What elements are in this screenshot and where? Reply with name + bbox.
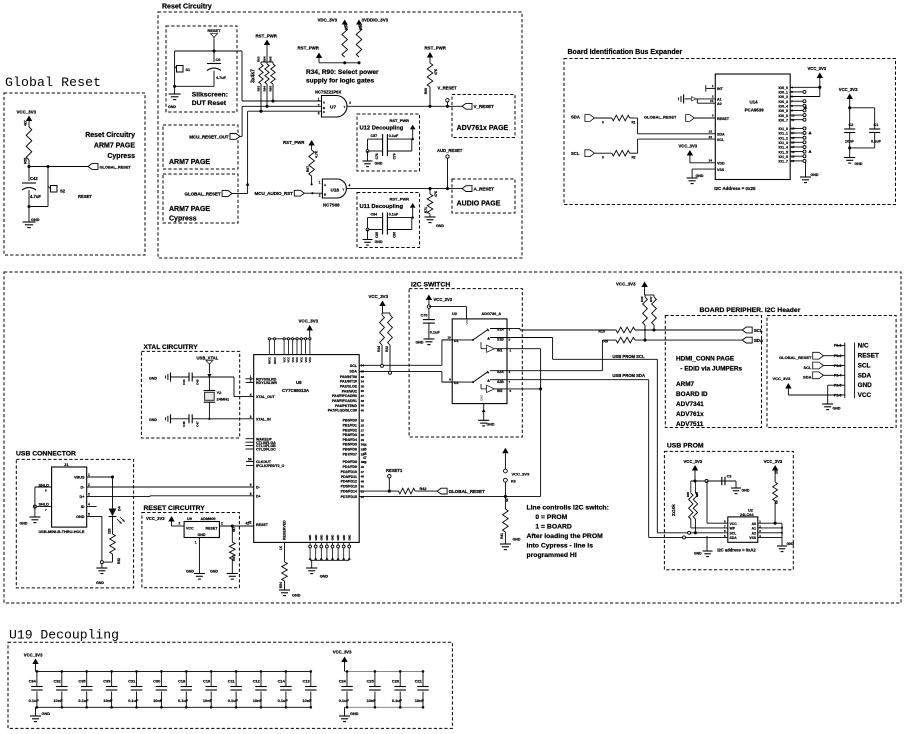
resistor R63 10k — [773, 469, 779, 504]
capacitor C6 4.7uF — [207, 51, 227, 86]
svg-text:D2: D2 — [454, 381, 459, 385]
svg-text:GND: GND — [480, 395, 484, 401]
node junction — [100, 561, 103, 564]
label USB-MINI-B-THRU-HOLE — [39, 529, 85, 534]
svg-text:5: 5 — [88, 513, 90, 517]
pin GND of U3 — [480, 395, 486, 421]
svg-text:SCL: SCL — [858, 363, 871, 370]
svg-text:PB1/FD1: PB1/FD1 — [343, 424, 357, 428]
svg-text:PB0/FD0: PB0/FD0 — [343, 419, 357, 423]
section title: RESET CIRCUITRY — [144, 505, 206, 512]
IC U14 right pins IO1_0..IO1_7 — [778, 127, 806, 164]
svg-text:4: 4 — [349, 101, 351, 105]
section title: U19 Decoupling — [9, 628, 119, 643]
svg-text:S1B: S1B — [497, 338, 504, 342]
svg-text:C24: C24 — [339, 679, 347, 684]
svg-text:DUT Reset: DUT Reset — [192, 100, 227, 107]
power flag VCC_3V3 — [299, 319, 319, 339]
svg-text:AUDIO PAGE: AUDIO PAGE — [457, 201, 501, 208]
svg-text:24MHz: 24MHz — [217, 396, 230, 401]
svg-text:0.1uF: 0.1uF — [430, 331, 441, 335]
wire — [192, 376, 199, 378]
wire IC top power bus — [268, 338, 313, 364]
ground — [478, 420, 495, 426]
node junction — [46, 165, 49, 168]
label ARM7 PAGE Cypress — [169, 206, 210, 222]
svg-text:ARM7 PAGE: ARM7 PAGE — [94, 143, 135, 150]
svg-text:VCC_3V3: VCC_3V3 — [369, 294, 389, 299]
svg-text:3: 3 — [88, 493, 90, 497]
wire — [29, 166, 88, 168]
svg-text:28: 28 — [361, 433, 365, 437]
wire USB PROM SCL — [657, 531, 728, 534]
resistor R41 1K — [500, 496, 509, 538]
ground — [731, 488, 750, 494]
wire — [47, 167, 49, 187]
svg-text:4.7uF: 4.7uF — [30, 194, 41, 199]
svg-text:2: 2 — [221, 522, 223, 526]
svg-text:50: 50 — [361, 485, 365, 489]
node junction — [848, 106, 851, 109]
resistor R64 — [263, 56, 270, 84]
svg-text:IN1: IN1 — [497, 349, 503, 353]
svg-text:USB-MINI-B-THRU-HOLE: USB-MINI-B-THRU-HOLE — [39, 529, 85, 534]
resistor R71 47K — [424, 189, 438, 214]
svg-text:IO0_4: IO0_4 — [778, 105, 788, 109]
resistor R63 — [257, 56, 264, 84]
svg-text:PB5/FD5: PB5/FD5 — [343, 443, 357, 447]
power flag RST_PWR — [390, 118, 416, 139]
wire — [199, 418, 253, 420]
svg-text:ARM7 PAGE: ARM7 PAGE — [169, 206, 210, 213]
ground — [210, 570, 238, 580]
ground — [687, 174, 704, 184]
capacitor C24 0.1uF — [339, 670, 353, 708]
svg-text:C13: C13 — [303, 679, 311, 684]
wire — [367, 139, 369, 151]
svg-text:VCC: VCC — [300, 357, 304, 363]
wire — [102, 554, 113, 562]
svg-text:GND: GND — [742, 489, 750, 493]
svg-text:C12: C12 — [253, 679, 261, 684]
svg-text:VDC_3V3: VDC_3V3 — [318, 18, 338, 23]
resistor R42 — [399, 487, 427, 494]
svg-text:PD2/FD10: PD2/FD10 — [341, 470, 357, 474]
svg-text:0.1uF: 0.1uF — [128, 698, 139, 703]
svg-text:0.1uF: 0.1uF — [389, 213, 399, 217]
svg-text:4: 4 — [349, 184, 351, 188]
svg-text:1: 1 — [88, 473, 90, 477]
pin SCL — [350, 363, 442, 368]
svg-text:IO0_3: IO0_3 — [778, 100, 788, 104]
svg-text:A: A — [324, 183, 326, 187]
IC U3 ADG736 — [452, 312, 507, 404]
svg-text:ARM7 PAGE: ARM7 PAGE — [169, 159, 210, 166]
node junction — [343, 61, 360, 64]
pin 24 VDD — [690, 159, 725, 166]
power flag VCC_3V3 — [684, 459, 703, 481]
svg-text:GND: GND — [487, 423, 495, 427]
svg-text:C: C — [323, 110, 325, 114]
svg-text:Y2: Y2 — [217, 390, 223, 395]
svg-text:R90: R90 — [359, 24, 363, 30]
ground — [149, 373, 171, 382]
svg-text:C85: C85 — [375, 232, 379, 238]
svg-text:R34, R90: Select power: R34, R90: Select power — [306, 69, 379, 76]
power flag VCC_3V3 — [426, 295, 453, 306]
svg-text:220: 220 — [107, 528, 111, 534]
svg-text:ADV761x PAGE: ADV761x PAGE — [457, 125, 509, 132]
wire top rail — [345, 670, 424, 672]
capacitor C70 0.1uF — [421, 308, 441, 339]
section title: USB CONNECTOR — [16, 451, 76, 458]
net tag SCL — [804, 362, 837, 370]
svg-text:C1: C1 — [874, 123, 879, 127]
wire — [630, 139, 638, 153]
IC U8 bottom ground pins — [308, 535, 351, 560]
net tag GLOBAL_RESET — [185, 191, 248, 197]
net tag V_RESET — [462, 103, 494, 109]
wire bottom rail — [36, 706, 311, 708]
svg-text:I2C SWITCH: I2C SWITCH — [411, 282, 450, 289]
net tag GLOBAL_RESET — [779, 352, 836, 360]
capacitor C33 10nF — [103, 670, 117, 708]
capacitor C32 10nF — [54, 670, 68, 708]
svg-text:4.7K: 4.7K — [315, 150, 319, 158]
svg-text:2: 2 — [318, 103, 320, 107]
svg-text:GND: GND — [696, 174, 704, 178]
subsection box: ARM7 PAGE Cypress — [163, 174, 238, 223]
pin 3 RESET — [694, 114, 730, 121]
svg-text:USB CONNECTOR: USB CONNECTOR — [16, 451, 76, 458]
wire — [691, 480, 736, 482]
svg-text:Cypress: Cypress — [107, 153, 135, 160]
svg-text:VSS: VSS — [749, 536, 757, 540]
pin D2 — [442, 378, 459, 386]
svg-text:SDA: SDA — [349, 370, 357, 374]
svg-text:46: 46 — [363, 452, 367, 456]
svg-text:GND: GND — [416, 341, 424, 345]
svg-text:VCC_3V3: VCC_3V3 — [17, 110, 37, 115]
net tag GLOBAL_RESET — [88, 164, 131, 170]
node junction — [173, 85, 176, 88]
label U12 Decoupling — [360, 125, 404, 131]
svg-text:C6: C6 — [216, 58, 221, 62]
ground — [694, 551, 713, 557]
svg-text:C18: C18 — [178, 679, 186, 684]
section box: Global Reset — [4, 93, 145, 255]
wire — [685, 97, 698, 101]
svg-text:R71: R71 — [424, 207, 428, 213]
svg-text:GND: GND — [319, 535, 323, 541]
svg-text:D+: D+ — [256, 494, 261, 498]
svg-text:ADV761x: ADV761x — [676, 411, 704, 418]
svg-text:RST_PWR: RST_PWR — [390, 197, 410, 202]
svg-text:GLOBAL_RESET: GLOBAL_RESET — [100, 164, 132, 169]
svg-text:1: 1 — [318, 98, 320, 102]
svg-text:GND: GND — [210, 570, 218, 574]
svg-text:1: 1 — [319, 181, 321, 185]
power flag VCC_3V3 — [808, 66, 827, 97]
svg-text:R64: R64 — [263, 86, 267, 92]
net flag USB_XTAL — [197, 356, 219, 374]
wire — [849, 148, 851, 158]
svg-text:44: 44 — [363, 443, 367, 447]
svg-text:4: 4 — [88, 503, 90, 507]
svg-text:38: 38 — [361, 399, 365, 403]
svg-text:0.1uF: 0.1uF — [278, 698, 289, 703]
wire — [368, 139, 412, 151]
svg-text:Silkscreen:: Silkscreen: — [192, 92, 228, 99]
svg-text:R46: R46 — [640, 296, 644, 302]
power flag RST_PWR — [425, 46, 447, 64]
wire D+ to U8 — [87, 495, 254, 498]
wire — [594, 117, 611, 119]
wire top rail — [36, 670, 311, 672]
svg-text:27: 27 — [361, 428, 365, 432]
svg-text:SCL: SCL — [571, 151, 580, 156]
wire — [261, 84, 273, 111]
svg-text:C21: C21 — [415, 679, 423, 684]
svg-text:R66: R66 — [424, 88, 428, 94]
svg-text:48: 48 — [361, 475, 365, 479]
wire — [347, 105, 462, 107]
net tag MCU_RESET_OUT — [189, 134, 242, 140]
svg-text:S1: S1 — [186, 68, 191, 72]
svg-text:I2C address = 0xA2: I2C address = 0xA2 — [717, 548, 756, 553]
label USB PROM SDA — [612, 373, 645, 378]
note text R34 R90 select — [306, 69, 379, 85]
wire — [828, 385, 836, 404]
svg-text:IO0_0: IO0_0 — [778, 86, 788, 90]
svg-text:VDD: VDD — [717, 162, 725, 166]
switch S1 of U3 — [452, 328, 510, 342]
capacitor C1 0.1uF — [869, 123, 881, 148]
svg-text:4: 4 — [250, 393, 252, 397]
svg-text:VCC_3V3: VCC_3V3 — [333, 650, 352, 655]
capacitor C18 0.1uF — [178, 670, 192, 708]
svg-text:SCL: SCL — [350, 364, 358, 368]
svg-text:C2: C2 — [849, 123, 854, 127]
svg-text:10nF: 10nF — [303, 698, 313, 703]
subsection box: U12 Decoupling — [357, 114, 420, 171]
net label SHLD bottom — [33, 503, 51, 512]
svg-text:46: 46 — [361, 465, 365, 469]
svg-text:1: 1 — [195, 541, 197, 545]
svg-text:GND: GND — [694, 552, 702, 556]
svg-text:0.1uF: 0.1uF — [871, 140, 882, 144]
svg-text:GND: GND — [787, 542, 795, 546]
ground — [844, 158, 863, 167]
svg-text:IO0_1: IO0_1 — [778, 91, 788, 95]
net flag RESET1 — [386, 468, 403, 491]
ground — [800, 173, 819, 183]
svg-text:0: 0 — [602, 121, 604, 125]
subsection box: Silkscreen DUT Reset — [166, 26, 237, 112]
svg-text:R2: R2 — [632, 156, 636, 160]
svg-text:R63: R63 — [257, 86, 261, 92]
note text HDMI_CONN PAGE — [676, 356, 743, 428]
node junction — [212, 49, 215, 52]
svg-text:J1: J1 — [64, 462, 69, 467]
svg-text:GND: GND — [308, 535, 312, 541]
svg-text:C45: C45 — [196, 379, 200, 385]
svg-text:R35: R35 — [686, 492, 690, 498]
svg-text:AVCC: AVCC — [273, 357, 277, 364]
svg-text:U19 Decoupling: U19 Decoupling — [9, 628, 119, 643]
wire — [694, 519, 696, 533]
node junction — [428, 105, 431, 108]
svg-text:GND: GND — [858, 382, 873, 389]
wire S2B USB PROM SDA — [507, 380, 649, 538]
ground — [425, 214, 445, 228]
ground — [30, 712, 50, 722]
node junction — [693, 479, 696, 482]
svg-text:PD3/FD11: PD3/FD11 — [341, 475, 357, 479]
svg-text:C57: C57 — [371, 134, 378, 138]
op-amp gate U7 NC7SZ21P6X — [315, 90, 351, 118]
svg-text:SDA: SDA — [754, 338, 764, 343]
ground — [23, 218, 40, 228]
svg-text:C44: C44 — [182, 379, 186, 385]
power flag RST_PWR — [298, 46, 323, 63]
wire — [28, 167, 30, 182]
svg-text:C79: C79 — [393, 153, 397, 159]
svg-text:D4: D4 — [118, 506, 122, 511]
note text I2C address — [714, 186, 756, 191]
wire — [367, 218, 369, 230]
resistor R24 — [377, 313, 385, 352]
node junction — [388, 490, 391, 493]
resistor R47 — [649, 295, 657, 325]
svg-text:A0: A0 — [752, 522, 756, 526]
wire — [311, 176, 313, 184]
resistor R55 4k7 — [24, 120, 32, 164]
svg-text:2x10k: 2x10k — [671, 504, 676, 516]
svg-text:SCL: SCL — [804, 365, 813, 370]
svg-text:XTAL_OUT: XTAL_OUT — [256, 395, 276, 399]
note text Silkscreen DUT Reset — [192, 92, 228, 108]
svg-text:40: 40 — [361, 408, 365, 412]
svg-text:0: 0 — [602, 156, 604, 160]
wire — [242, 51, 322, 101]
svg-text:SCL: SCL — [717, 138, 725, 142]
wire U9 gnd — [195, 538, 200, 574]
svg-text:PD1/FD9: PD1/FD9 — [343, 465, 357, 469]
wire — [175, 51, 214, 86]
svg-text:R64: R64 — [263, 56, 267, 62]
svg-text:GND: GND — [314, 535, 318, 541]
node junction — [311, 183, 313, 185]
svg-text:U8: U8 — [296, 380, 302, 385]
net tag SDA — [742, 337, 764, 343]
svg-text:C20: C20 — [392, 679, 399, 684]
svg-text:A1: A1 — [752, 527, 756, 531]
ground — [822, 404, 841, 411]
svg-text:HDMI_CONN PAGE: HDMI_CONN PAGE — [676, 356, 735, 363]
svg-text:VCC_3V3: VCC_3V3 — [764, 459, 783, 464]
net tag A_RESET — [462, 186, 494, 192]
svg-text:34: 34 — [361, 380, 365, 384]
IC U8 right pins PD group — [341, 443, 367, 499]
IC U2 24LC64 — [724, 509, 761, 543]
svg-text:Global Reset: Global Reset — [5, 75, 101, 90]
crystal Y2 24MHz — [204, 377, 230, 419]
wire — [175, 50, 242, 52]
wire S2A to R5 — [507, 340, 616, 371]
resistor R57 — [230, 524, 236, 561]
svg-text:IO1_7: IO1_7 — [778, 160, 788, 164]
svg-text:C86: C86 — [393, 232, 397, 238]
svg-text:C35: C35 — [78, 679, 86, 684]
svg-text:supply for logic gates: supply for logic gates — [306, 78, 374, 85]
svg-text:35: 35 — [361, 384, 365, 388]
svg-text:RST_PWR: RST_PWR — [283, 140, 305, 145]
svg-text:R22: R22 — [385, 346, 389, 352]
capacitor C46 22pF — [182, 414, 200, 427]
node junction — [208, 418, 210, 420]
svg-text:GND: GND — [42, 712, 51, 716]
note text line controls I2C switch — [527, 505, 609, 560]
ground — [20, 517, 41, 526]
svg-text:MCU_AUDIO_RST: MCU_AUDIO_RST — [255, 191, 294, 196]
ground — [306, 568, 328, 579]
node junction — [366, 150, 369, 153]
svg-text:PB7/FD7: PB7/FD7 — [343, 452, 357, 456]
capacitor C57 0.1uF — [371, 134, 399, 156]
svg-text:GLOBAL_RESET: GLOBAL_RESET — [779, 355, 812, 360]
svg-text:GND: GND — [375, 162, 383, 166]
svg-text:C84: C84 — [371, 213, 378, 217]
svg-text:PB3/FD3: PB3/FD3 — [343, 433, 357, 437]
svg-text:C47: C47 — [196, 421, 200, 427]
label U11 Decoupling — [360, 204, 404, 210]
buffer IN2 — [481, 384, 512, 393]
svg-text:4k7: 4k7 — [24, 120, 28, 126]
label AUDIO PAGE — [457, 201, 501, 208]
node junction — [366, 228, 369, 231]
ground — [339, 712, 359, 722]
svg-text:SDA: SDA — [858, 372, 872, 379]
op-amp gate U18 NC7S08 — [319, 179, 351, 208]
svg-text:GND: GND — [20, 522, 28, 526]
svg-text:VCC_3V3: VCC_3V3 — [146, 516, 165, 521]
net tag GLOBAL_RESET — [644, 115, 694, 122]
power flag 3VDDIO_3V3 — [356, 18, 389, 28]
svg-text:into Cypress - line is: into Cypress - line is — [527, 543, 594, 550]
wire — [368, 138, 413, 140]
svg-text:MCU_RESET_OUT: MCU_RESET_OUT — [189, 134, 229, 139]
net label SHLD top — [35, 483, 52, 492]
svg-text:INT: INT — [717, 87, 724, 91]
svg-text:2: 2 — [88, 483, 90, 487]
subsection box: XTAL CIRCUITRY — [141, 351, 239, 438]
svg-text:IO1_6: IO1_6 — [778, 155, 788, 159]
subsection box: AUDIO PAGE — [452, 179, 515, 213]
net flag V_RESET — [438, 86, 458, 107]
subsection box: HDMI_CONN notes — [665, 316, 761, 428]
svg-text:6: 6 — [318, 112, 320, 116]
svg-text:RESET: RESET — [858, 353, 879, 360]
svg-text:IO0_2: IO0_2 — [778, 95, 788, 99]
resistor R22 — [385, 313, 393, 352]
svg-text:R15: R15 — [598, 329, 605, 333]
svg-text:R5: R5 — [603, 340, 608, 344]
svg-text:35: 35 — [361, 370, 365, 374]
pin 22 SCL — [638, 135, 725, 142]
svg-text:GND: GND — [513, 538, 521, 542]
capacitor C35 0.1uF — [78, 670, 92, 708]
